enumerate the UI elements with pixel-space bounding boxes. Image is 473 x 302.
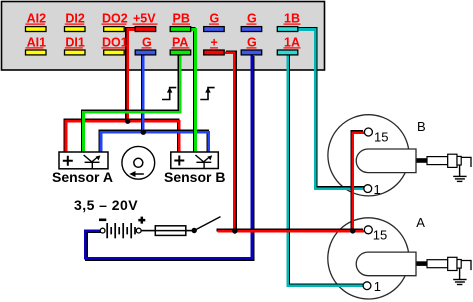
svg-text:DO1: DO1	[102, 35, 128, 49]
terminal G top1	[204, 12, 225, 32]
sensor A plus	[63, 156, 73, 166]
sensor B plus	[174, 156, 184, 166]
coil B terminal 1	[364, 185, 372, 193]
svg-text:Sensor B: Sensor B	[164, 169, 225, 185]
svg-text:A: A	[416, 215, 425, 230]
rising edge symbol 2	[200, 87, 214, 99]
terminal G bottom1	[135, 35, 156, 55]
switch S1	[192, 228, 197, 233]
node junction + to supply bus	[232, 228, 237, 233]
battery BT1 3,5-20V	[99, 217, 145, 239]
svg-text:+5V: +5V	[133, 12, 156, 26]
coil B secondary tower	[356, 149, 416, 173]
coil A secondary tower	[356, 252, 416, 276]
terminal 1A	[277, 35, 300, 55]
svg-text:+: +	[211, 35, 218, 49]
coil A terminal 15	[364, 226, 372, 234]
terminal panel	[2, 2, 325, 71]
rising edge symbol 1	[162, 87, 176, 99]
svg-text:PA: PA	[172, 35, 188, 49]
wire fuse to switch	[186, 230, 194, 232]
terminal plus	[204, 35, 225, 55]
terminal 1B	[277, 12, 300, 32]
svg-text:G: G	[247, 35, 257, 49]
sensor B symbol	[195, 155, 211, 168]
sensor A symbol	[84, 155, 100, 168]
terminal DI1	[65, 35, 86, 55]
svg-text:AI1: AI1	[27, 35, 46, 49]
terminal AI2	[25, 12, 46, 32]
wire PA green to sensor A	[82, 54, 180, 153]
wire + red down	[225, 52, 236, 232]
wire PB green to sensor B	[190, 28, 196, 152]
spark plug A	[427, 257, 471, 270]
ground symbol coil A	[453, 268, 466, 284]
terminal DO2	[102, 12, 128, 32]
svg-text:G: G	[142, 35, 152, 49]
svg-text:PB: PB	[173, 12, 190, 26]
svg-text:AI2: AI2	[27, 12, 46, 26]
terminal +5V	[133, 12, 158, 32]
coil A HT connector	[417, 261, 428, 266]
terminal AI1	[25, 35, 46, 55]
terminal PB	[170, 12, 191, 32]
svg-text:1A: 1A	[284, 35, 300, 49]
coil B terminal 15	[364, 128, 372, 136]
wire G navy battery loop	[85, 55, 253, 260]
spark plug B	[427, 154, 471, 167]
terminal G bottom2	[241, 35, 262, 55]
sensor B box	[171, 152, 219, 169]
ground symbol coil B	[453, 165, 466, 181]
terminal PA	[170, 35, 191, 55]
encoder disc	[122, 146, 155, 179]
svg-text:G: G	[210, 12, 220, 26]
wire +5V red to sensors bus	[65, 28, 180, 152]
fuse F1	[155, 226, 186, 236]
node junction ground bus	[141, 130, 146, 135]
wire 1A teal	[288, 54, 365, 286]
node junction coil branch	[350, 228, 355, 233]
wire battery to fuse	[141, 230, 155, 232]
svg-text:G: G	[247, 12, 257, 26]
svg-text:DI2: DI2	[65, 12, 85, 26]
node junction +5V/sensor supply	[125, 119, 130, 124]
svg-text:1: 1	[374, 182, 381, 197]
svg-text:15: 15	[374, 130, 388, 145]
terminal DO1	[102, 35, 128, 55]
svg-text:B: B	[417, 119, 426, 134]
wire main red bus battery to coils	[216, 131, 364, 231]
coil A terminal 1	[363, 282, 371, 290]
svg-text:1B: 1B	[284, 12, 300, 26]
svg-text:Sensor A: Sensor A	[52, 169, 113, 185]
svg-text:DI1: DI1	[65, 35, 85, 49]
terminal G top2	[241, 12, 262, 32]
sensor A box	[59, 152, 108, 169]
wire G blue bus to sensors	[100, 54, 209, 153]
svg-text:3,5 – 20V: 3,5 – 20V	[74, 197, 138, 213]
svg-text:DO2: DO2	[102, 12, 128, 26]
ignition coil A body	[328, 218, 409, 299]
terminal DI2	[65, 12, 86, 32]
svg-text:1: 1	[374, 279, 381, 294]
svg-text:15: 15	[373, 227, 387, 242]
ignition coil B body	[328, 115, 409, 196]
coil B HT connector	[417, 158, 428, 163]
wire 1B teal	[298, 28, 366, 188]
